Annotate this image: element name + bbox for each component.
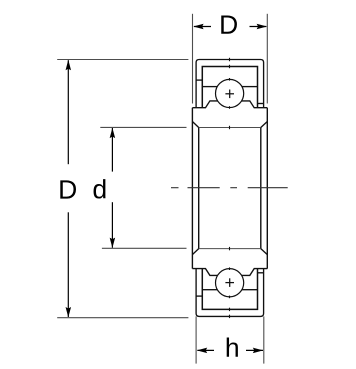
- node: dimension line D left lower segment: [67, 212, 69, 317]
- wire: d extension line bottom (horizontal): [102, 247, 187, 249]
- wire: chamfer top-left: [192, 122, 198, 128]
- node: shield bottom rectangle: [202, 269, 257, 310]
- node: arrowhead left (points left): [193, 24, 203, 30]
- node: label D left: [60, 180, 76, 198]
- node: ball top: [216, 79, 244, 107]
- wire: stub top-left: [196, 79, 202, 81]
- node: dimension line D top, left tail: [194, 26, 211, 28]
- node: ball bottom: [216, 269, 244, 297]
- node: label D top: [221, 15, 237, 33]
- node: arrowhead right (points right): [257, 24, 267, 30]
- wire: h extension line left (vertical): [195, 316, 197, 363]
- wire: stub top-right: [258, 103, 264, 105]
- wire: h extension line right (vertical): [263, 316, 265, 363]
- node: label d: [94, 179, 106, 198]
- wire: d extension line top (horizontal): [100, 126, 186, 128]
- node: outer ring top section outline: [196, 60, 264, 108]
- wire: shield top bottom edge left part: [202, 86, 217, 88]
- node: shield top rectangle: [202, 67, 257, 108]
- node: ball bottom cross: [225, 282, 234, 284]
- wire: shield top bottom edge right part: [242, 86, 258, 88]
- node: vertical centerline ticks: [229, 58, 231, 318]
- node: arrowhead right h: [253, 348, 263, 354]
- wire: chamfer bottom-right: [261, 249, 268, 255]
- node: inner ring side face right: [266, 108, 268, 269]
- wire: stub bottom-left: [196, 295, 202, 297]
- node: arrowhead up d: [110, 128, 116, 138]
- node: arrowhead down: [66, 307, 72, 317]
- node: arrowhead down d: [110, 238, 116, 248]
- node: arrowhead left h: [197, 348, 207, 354]
- wire: inner ring bottom edge with raceway shoulder: [192, 269, 218, 276]
- node: dimension line h left tail: [197, 349, 214, 351]
- wire: shield bottom top edge left part: [202, 289, 217, 291]
- wire: D top extension line left (vertical): [192, 14, 194, 104]
- wire: chamfer bottom-left: [192, 249, 198, 255]
- node: arrowhead up: [66, 60, 72, 70]
- node: bore rectangle (inner ring bore with chamfer verticals): [198, 128, 200, 249]
- node: dimension line D left upper segment: [67, 60, 69, 164]
- node: dimension line d lower segment: [111, 202, 113, 248]
- wire: inner ring top edge with raceway shoulder: [192, 101, 218, 108]
- wire: stub bottom-right: [258, 272, 264, 274]
- wire: D left extension line bottom (horizontal): [57, 317, 188, 319]
- wire: shield bottom top edge right part: [242, 289, 258, 291]
- node: ball top cross: [225, 93, 234, 95]
- wire: chamfer top-right: [261, 122, 268, 128]
- node: dimension line h right tail: [246, 349, 263, 351]
- node: inner ring side face left: [191, 108, 193, 269]
- node: dimension line D top, right tail: [250, 26, 267, 28]
- node: axis center line (dash-dot): [171, 187, 179, 189]
- node: dimension line d upper segment: [111, 128, 113, 172]
- wire: D top extension line right (vertical): [266, 14, 268, 104]
- node: outer ring bottom section outline: [196, 269, 264, 317]
- node: label h: [227, 337, 238, 356]
- wire: D left extension line top (horizontal): [57, 59, 188, 61]
